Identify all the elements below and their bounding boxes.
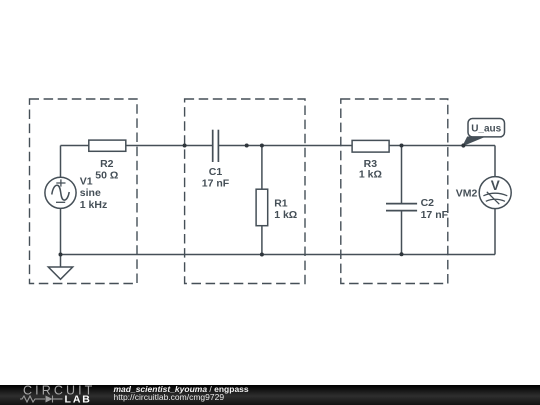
resistor R1	[256, 189, 268, 226]
label VM2	[456, 188, 478, 200]
junction node (V1 bottom)	[59, 253, 63, 257]
dashed box stage 2 (C1/R1 section)	[185, 99, 305, 284]
ground	[48, 267, 72, 279]
svg-text:V: V	[491, 178, 500, 193]
svg-text:1 kHz: 1 kHz	[80, 199, 107, 211]
junction node (R1 top)	[260, 144, 264, 148]
label R2 value	[95, 158, 118, 182]
wire VM2 branch	[494, 146, 496, 255]
wire V1 vertical branch	[60, 146, 62, 268]
voltage source V1	[45, 177, 76, 208]
junction node (C2 top)	[400, 144, 404, 148]
logo resistor-diode glyph	[20, 396, 63, 403]
label C2 value	[421, 197, 449, 221]
svg-text:U_aus: U_aus	[471, 124, 501, 135]
net flag U_aus	[463, 119, 504, 146]
svg-text:http://circuitlab.com/cmg9729: http://circuitlab.com/cmg9729	[114, 392, 225, 402]
resistor R3	[352, 140, 389, 152]
svg-text:LAB: LAB	[65, 393, 92, 405]
resistor R2	[89, 140, 126, 151]
footer bar	[0, 385, 540, 405]
svg-text:R2: R2	[100, 158, 114, 170]
svg-text:VM2: VM2	[456, 188, 478, 200]
wire top net: C1 right plate to VM2 corner	[219, 145, 495, 147]
junction node (C2 bottom)	[400, 252, 404, 256]
junction node (U_aus tap)	[461, 143, 465, 147]
wire bottom net	[61, 254, 496, 256]
svg-text:17 nF: 17 nF	[202, 178, 230, 190]
svg-text:50 Ω: 50 Ω	[95, 170, 118, 182]
capacitor C2	[386, 204, 417, 211]
svg-text:C2: C2	[421, 197, 435, 209]
label R3 value	[359, 158, 382, 181]
label C1 value	[202, 166, 230, 190]
logo LAB wordmark	[65, 393, 92, 405]
label R1 value	[274, 198, 297, 222]
voltmeter VM2	[479, 177, 511, 209]
svg-text:1 kΩ: 1 kΩ	[359, 168, 382, 180]
credit author line	[114, 384, 249, 394]
dashed box stage 1 (source section)	[30, 99, 138, 284]
wire C2 branch bottom	[401, 211, 403, 255]
junction node (C1 output)	[245, 144, 249, 148]
svg-text:V1: V1	[80, 176, 93, 188]
wire C2 branch top	[401, 146, 403, 204]
credit url line	[114, 392, 225, 402]
logo CIRCUIT wordmark	[23, 383, 95, 397]
wire top net: V1 to C1 left plate	[61, 145, 213, 147]
svg-text:sine: sine	[80, 187, 101, 199]
svg-text:1 kΩ: 1 kΩ	[274, 209, 297, 221]
label V1 value	[80, 176, 107, 211]
wire R1 branch	[261, 146, 263, 255]
svg-text:C1: C1	[209, 166, 223, 178]
junction node (stage2 boundary)	[183, 144, 187, 148]
capacitor C1	[213, 130, 219, 162]
svg-text:R1: R1	[274, 198, 288, 210]
dashed box stage 3 (R3/C2 section)	[341, 99, 448, 284]
junction node (R1 bottom)	[260, 253, 264, 257]
svg-text:17 nF: 17 nF	[421, 209, 449, 221]
